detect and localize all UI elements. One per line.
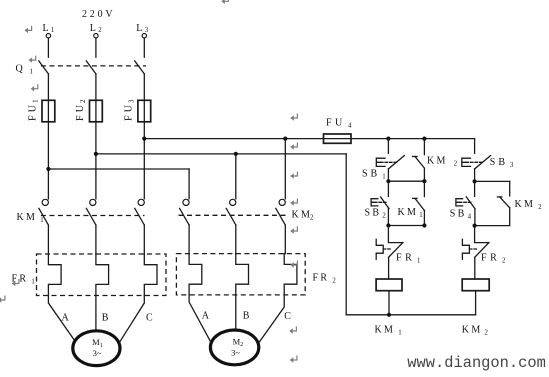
FR1 heater element phase C [144,254,157,296]
node L3 tap [142,137,146,141]
wire L1 fuse to KM1 pole1 [47,121,49,199]
wire L3 fuse to KM1 pole3 [143,121,145,199]
wire top rail corner to SB3 [474,139,476,154]
wire node row1 [388,180,424,182]
node KM2 pole2 tap [234,152,238,156]
thermal relay FR1 heater box [37,254,167,296]
terminal L3 [142,34,146,38]
coil KM2 [462,279,489,291]
motor M2 [210,330,258,365]
terminal L1 [46,34,50,38]
FR1 heater element phase B [96,254,109,296]
node L2 tap [94,152,98,156]
fuse FU2 [95,100,97,121]
wire motor2 phase A [189,295,211,343]
svg-text:FU1: FU1 [28,99,40,121]
switch Q1 pole 3 blade [135,61,145,74]
node row2 right [422,223,426,227]
wire coil KM2 to rail [475,291,477,315]
fuse FU1 [47,100,49,121]
pushbutton SB2 (NO start) [371,181,389,225]
wire node row2 [388,225,424,227]
node KM2 interlock top [422,137,426,141]
svg-text:A: A [202,311,212,322]
FR2 heater element phase C [284,254,297,295]
FR1 heater element phase A [48,254,61,296]
wire motor1 phase A [48,296,75,343]
contactor KM1 pole 1 [39,199,49,254]
thermal relay FR2 heater box [176,254,305,295]
svg-text:C: C [284,311,293,322]
svg-text:220V: 220V [82,9,115,20]
wire bottom rail [346,314,475,316]
switch Q1 pole 2 blade [86,61,96,74]
wire to parallel branch [475,180,510,182]
contact KM2 interlock (NC) [413,139,425,182]
terminal L2 [94,34,98,38]
FR2 heater element phase B [236,254,249,295]
contact KM1 self-holding (NO) [413,181,425,225]
contact KM2 self-holding (NO) [475,181,510,225]
pushbutton SB4 (NO start) [456,181,475,225]
pushbutton SB3 (NC stop) [462,156,491,182]
svg-text:3~: 3~ [231,347,240,357]
contactor KM2 pole 2 [226,199,236,253]
wire KM2 pole2 drop [235,154,237,199]
node row1 left [386,179,390,183]
coil KM1 [376,279,402,291]
switch Q1 linkage dashed [41,65,146,67]
node control branch SB1 top [386,137,390,141]
contactor KM1 pole 2 [86,199,96,254]
wire KM2 pole3 drop [284,139,286,199]
paragraph return marks [0,0,297,363]
contactor KM2 pole 1 [180,199,190,253]
contactor KM2 linkage dashed [179,214,290,216]
svg-text:www.diangon.com: www.diangon.com [407,354,546,372]
pushbutton SB1 (NC stop) [376,139,404,182]
wire coil KM1 to rail [388,291,390,315]
wire L2 tap rail [96,153,346,155]
node row2 left [386,223,390,227]
node KM2 pole3 tap [283,137,287,141]
wire motor2 phase C [259,295,284,343]
wire control return (left vertical) [345,154,347,315]
wire switch to fuse FU2 [95,74,97,100]
svg-text:C: C [146,312,155,323]
wire L3 drop to switch [143,38,145,57]
wire motor2 phase B [235,295,237,330]
wire switch to fuse FU3 [143,74,145,100]
contact FR2 (NC thermal) [462,226,489,279]
svg-text:KM2: KM2 [292,209,315,221]
wire switch to fuse FU1 [47,74,49,100]
node L1 tap [46,167,50,171]
svg-text:FU3: FU3 [124,99,136,121]
contactor KM2 pole 3 [276,199,286,253]
fuse FU4 [324,134,352,143]
wire L2 drop to switch [95,38,97,57]
svg-text:A: A [62,312,72,323]
wire L2 fuse to KM1 pole2 [95,121,97,199]
node row1 right [422,179,426,183]
contactor KM1 pole 3 [135,199,145,254]
svg-text:3~: 3~ [93,348,102,358]
wire KM2 pole1 drop [188,169,190,199]
node right branch row1 [473,179,477,183]
contact FR1 (NC thermal) [376,226,403,280]
wire motor1 phase C [120,296,145,343]
wire L1 drop to switch [47,38,49,57]
wire motor1 phase B [95,296,97,331]
fuse FU3 [143,100,145,121]
node right branch row2 [473,224,477,228]
svg-text:B: B [243,311,252,322]
wire L3 tap to control (top rail) [144,138,474,140]
wire L1 tap rail [48,168,189,170]
node coil KM1 on rail [387,313,391,317]
svg-text:B: B [102,312,111,323]
contactor KM1 linkage dashed [41,215,145,217]
FR2 heater element phase A [189,254,202,295]
svg-text:FU2: FU2 [75,99,87,121]
switch Q1 pole 1 blade [39,61,49,74]
motor M1 [73,331,120,366]
